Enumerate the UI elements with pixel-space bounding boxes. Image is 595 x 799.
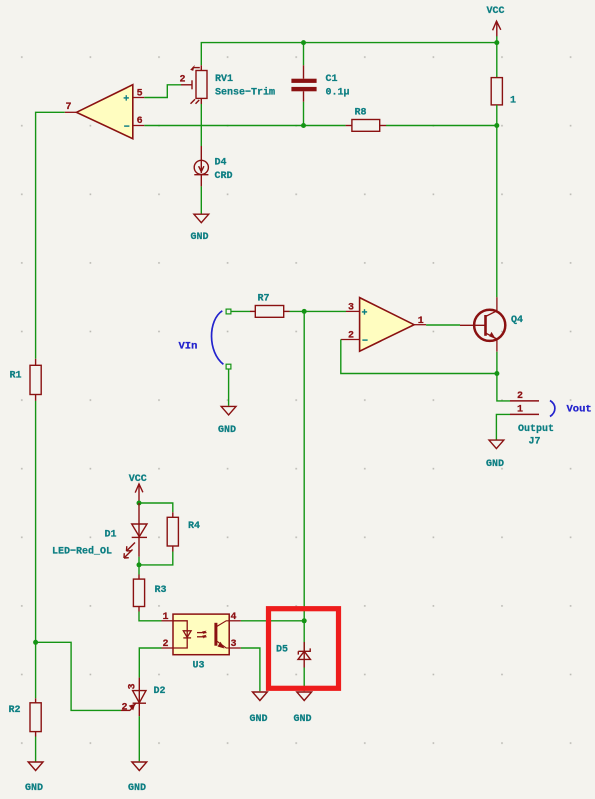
svg-text:LED−Red_OL: LED−Red_OL: [52, 546, 112, 558]
capacitor C1: [291, 65, 316, 102]
svg-text:GND: GND: [218, 425, 236, 436]
ground below D5: [297, 692, 312, 701]
svg-text:R1: R1: [10, 371, 22, 382]
svg-text:0.1µ: 0.1µ: [326, 88, 350, 99]
wire top rail from RV1 to VCC column: [201, 43, 497, 66]
svg-text:2: 2: [163, 639, 169, 650]
svg-text:6: 6: [137, 116, 143, 127]
ground below R2: [28, 762, 43, 771]
junction right column at pin6 rail: [494, 123, 499, 128]
resistor R1: [30, 359, 41, 401]
svg-text:VCC: VCC: [487, 6, 505, 17]
svg-text:R2: R2: [9, 705, 21, 716]
wire feedback pin2 to emitter node: [341, 340, 497, 374]
svg-text:2: 2: [517, 391, 523, 402]
svg-text:+: +: [362, 309, 368, 320]
svg-text:1: 1: [510, 95, 516, 106]
resistor R8: [346, 120, 386, 132]
zener diode D5: [298, 621, 310, 668]
wire R3 to U3 pin1: [139, 612, 162, 621]
resistor R9 value 1 (right column): [491, 43, 502, 126]
resistor R7: [250, 306, 290, 318]
svg-text:5: 5: [137, 89, 143, 100]
junction VCC column top: [494, 40, 499, 45]
svg-text:D2: D2: [154, 686, 166, 697]
ground below J7: [489, 440, 504, 449]
op-amp U2B (middle, pointing right): [360, 298, 415, 352]
junction D5 node: [302, 618, 307, 623]
svg-text:D1: D1: [105, 530, 117, 541]
wire D2 to GND: [138, 716, 140, 761]
optocoupler U3: [173, 614, 229, 655]
pin 2 stub: [341, 339, 360, 341]
svg-text:3: 3: [128, 683, 139, 689]
svg-text:2: 2: [180, 75, 186, 86]
label VIn (blue) with bracket arc: [212, 311, 224, 365]
wire D4 to GND: [200, 186, 202, 213]
wire pin5 to RV1 wiper: [144, 85, 181, 98]
svg-text:D4: D4: [215, 158, 227, 169]
wire R4 bottom to junction: [139, 552, 173, 565]
wire R7 to op-amp pin3: [290, 310, 347, 312]
U3 pin 3 stub: [229, 647, 241, 649]
label Vout (blue) with bracket arc: [550, 401, 555, 417]
connector J7 pin 1: [510, 413, 539, 415]
svg-text:D5: D5: [276, 645, 288, 656]
pin 3 stub: [346, 310, 360, 312]
resistor R3: [133, 575, 144, 612]
junction VCC-D1: [137, 501, 142, 506]
wire junction to D2 gate: [36, 642, 121, 710]
ground below U3 pin3: [253, 692, 268, 701]
svg-text:+: +: [123, 95, 129, 106]
svg-text:GND: GND: [128, 783, 146, 794]
junction emitter node: [494, 371, 499, 376]
svg-text:3: 3: [348, 303, 354, 314]
wire J7 pin1 to GND: [496, 414, 510, 439]
LED D1: [124, 503, 147, 558]
svg-text:GND: GND: [486, 459, 504, 470]
svg-text:−: −: [362, 337, 368, 348]
wire D1 to lower junction: [138, 557, 140, 575]
wire R1 to bottom junction: [35, 401, 37, 698]
wire end square VIn gnd stub: [226, 364, 231, 369]
junction D1/R4 bottom: [137, 562, 142, 567]
svg-text:Vout: Vout: [567, 404, 592, 416]
U3 pin 1 stub: [162, 620, 174, 622]
svg-text:Output: Output: [518, 424, 554, 435]
svg-text:−: −: [124, 123, 130, 134]
pin 1 stub: [414, 324, 426, 326]
U3 pin 4 stub: [229, 620, 241, 622]
svg-text:7: 7: [66, 102, 72, 113]
svg-text:CRD: CRD: [215, 171, 233, 182]
svg-text:1: 1: [163, 612, 169, 623]
svg-text:R3: R3: [155, 585, 167, 596]
junction left column: [33, 640, 38, 645]
wire R7 left: [231, 310, 250, 312]
wire U3 pin4 to D5 node: [241, 620, 304, 622]
svg-text:Sense−Trim: Sense−Trim: [215, 87, 275, 99]
svg-text:2: 2: [122, 703, 128, 714]
wire VCC node to R4 top: [139, 503, 173, 512]
svg-text:1: 1: [517, 404, 523, 415]
wire C1 bottom: [303, 102, 305, 126]
svg-text:R4: R4: [188, 521, 200, 532]
svg-text:R8: R8: [355, 108, 367, 119]
wire C1 top drop: [303, 43, 305, 66]
wire RV1 bottom to D4: [200, 104, 202, 146]
diode D4 CRD: [194, 146, 208, 186]
op-amp U2A (left, pointing left): [77, 85, 133, 139]
svg-text:4: 4: [231, 612, 237, 623]
ground below D4: [194, 214, 209, 223]
svg-text:GND: GND: [191, 232, 209, 243]
svg-text:R7: R7: [258, 294, 270, 305]
resistor R4: [167, 512, 178, 551]
ground below D2: [132, 762, 147, 771]
svg-text:1: 1: [418, 316, 424, 327]
wire op-amp out to Q4 base: [426, 324, 460, 326]
wire U3 pin2 to D2: [139, 648, 161, 678]
connector J7 pin 2: [510, 400, 539, 402]
potentiometer RV1: [181, 65, 207, 104]
svg-text:J7: J7: [529, 437, 541, 448]
svg-text:GND: GND: [25, 783, 43, 794]
wire end square R7 left: [226, 309, 231, 314]
wire R2 to GND: [35, 737, 37, 762]
svg-text:C1: C1: [326, 74, 338, 85]
svg-text:RV1: RV1: [215, 74, 233, 85]
ground below VIn: [221, 406, 236, 415]
wire pin7 down left side to R1: [36, 112, 65, 358]
svg-text:VIn: VIn: [179, 341, 198, 353]
wire R8 right to VCC column: [386, 125, 497, 127]
junction C1 bottom: [301, 123, 306, 128]
transistor Q4: [460, 297, 505, 352]
wire long vertical down to D5: [303, 311, 305, 620]
junction C1 top: [301, 40, 306, 45]
svg-text:VCC: VCC: [129, 474, 147, 485]
svg-text:Q4: Q4: [511, 315, 523, 326]
wire emitter down: [497, 352, 510, 401]
power symbol VCC (top right): [496, 36, 498, 43]
svg-text:GND: GND: [250, 714, 268, 725]
U3 pin 2 stub: [162, 647, 174, 649]
svg-text:GND: GND: [294, 714, 312, 725]
wire right column down to Q4 collector: [496, 126, 498, 298]
power symbol VCC (LED branch): [135, 484, 143, 503]
diode D2: [121, 678, 146, 717]
pin 6 stub: [133, 125, 145, 127]
resistor R2: [30, 698, 41, 736]
wire pin6 rail to R8: [144, 125, 345, 127]
wire VIn stub to GND: [228, 369, 230, 406]
svg-text:3: 3: [231, 639, 237, 650]
svg-text:U3: U3: [193, 661, 205, 672]
wire D5 to GND: [303, 668, 305, 692]
svg-text:2: 2: [348, 331, 354, 342]
junction R7 node: [302, 309, 307, 314]
pin 5 stub: [133, 97, 145, 99]
pin 7 stub: [65, 111, 77, 113]
wire U3 pin3 to GND: [241, 648, 260, 691]
highlight red box around D5: [269, 609, 339, 689]
